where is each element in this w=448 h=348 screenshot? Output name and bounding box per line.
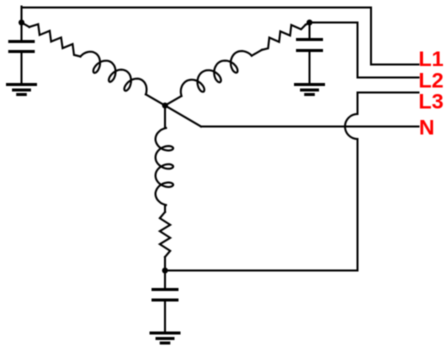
svg-text:N: N	[419, 115, 435, 139]
svg-text:L1: L1	[419, 47, 444, 71]
svg-text:L3: L3	[419, 89, 444, 113]
